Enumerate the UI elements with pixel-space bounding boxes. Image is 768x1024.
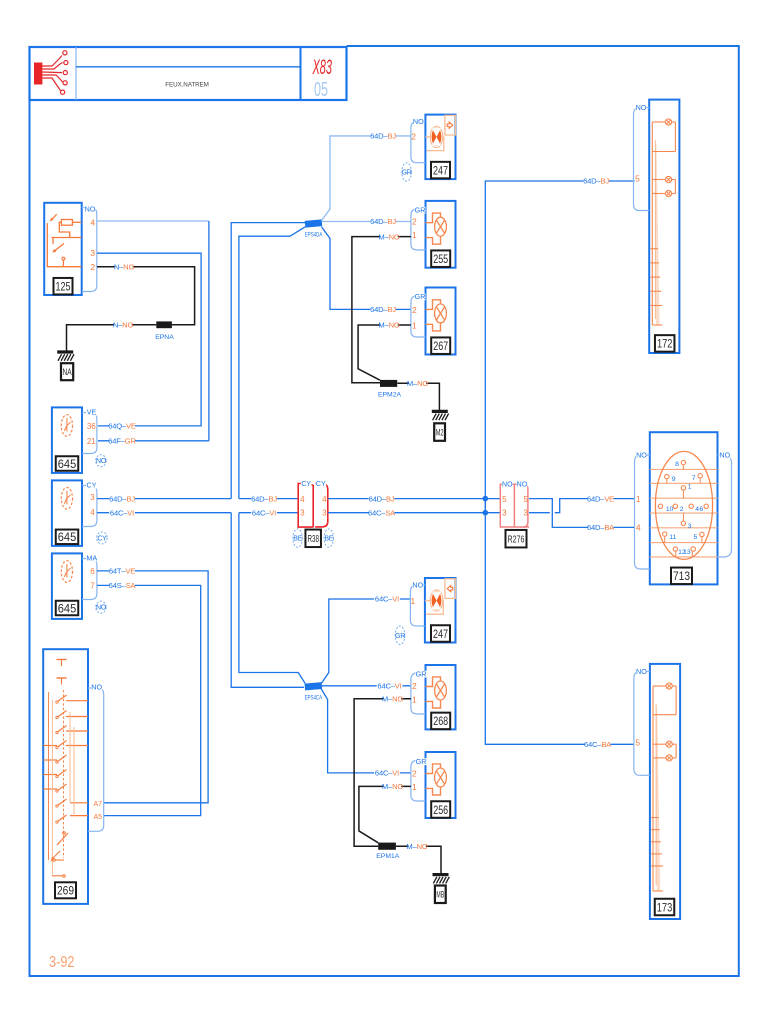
svg-text:64D–BJ: 64D–BJ bbox=[109, 494, 135, 503]
code circle NO bbox=[96, 455, 107, 467]
svg-text:EPNA: EPNA bbox=[155, 334, 174, 341]
svg-text:5: 5 bbox=[635, 174, 640, 184]
svg-text:64C–VI: 64C–VI bbox=[375, 769, 399, 778]
svg-text:64D–BJ: 64D–BJ bbox=[370, 305, 396, 314]
svg-text:GR: GR bbox=[416, 757, 427, 766]
code circle BE right bbox=[324, 529, 334, 547]
svg-text:64D–BJ: 64D–BJ bbox=[251, 494, 277, 503]
label 645 (middle) bbox=[56, 530, 79, 545]
wire splice to 256 pin2 (64C-VI) bbox=[321, 689, 411, 773]
wire label 64D-VE bbox=[587, 494, 614, 503]
wire 125 pin4 to 645a pin21 (64F-GR) bbox=[97, 221, 209, 441]
wire label M-NO bbox=[382, 695, 403, 704]
ground label NA bbox=[61, 363, 73, 380]
front lamp 268 bbox=[426, 665, 456, 729]
svg-text:3: 3 bbox=[502, 509, 507, 518]
svg-text:9: 9 bbox=[672, 476, 676, 483]
wire splice to 247a pin2 (64D-BJ) bbox=[322, 136, 411, 221]
wire EPM1A to ground MB (M-NO) bbox=[396, 846, 441, 874]
svg-text:R38: R38 bbox=[307, 534, 319, 545]
svg-text:X83: X83 bbox=[312, 56, 332, 79]
svg-text:GR: GR bbox=[402, 170, 412, 177]
connector bracket GR of 255 bbox=[411, 205, 426, 250]
svg-text:NO: NO bbox=[413, 117, 424, 126]
wire label 64S-SA bbox=[109, 581, 137, 590]
svg-text:CY: CY bbox=[87, 480, 97, 489]
svg-text:4: 4 bbox=[636, 522, 641, 532]
svg-text:3: 3 bbox=[90, 248, 95, 258]
connector bracket NO of 173 bbox=[634, 667, 650, 775]
svg-text:2: 2 bbox=[680, 506, 684, 513]
wire EPNA to ground NA (N-NO) bbox=[67, 325, 157, 352]
connector bracket NO of 172 bbox=[634, 103, 650, 210]
svg-text:M–NO: M–NO bbox=[382, 695, 403, 704]
label 172 bbox=[655, 335, 675, 352]
front lamp 255 bbox=[426, 201, 456, 268]
svg-text:13: 13 bbox=[683, 549, 691, 556]
code circle NO bbox=[96, 601, 107, 613]
svg-text:NA: NA bbox=[63, 367, 73, 378]
wire label 64C-VI bbox=[374, 595, 400, 604]
svg-text:247: 247 bbox=[433, 627, 448, 641]
svg-text:MB: MB bbox=[436, 890, 444, 901]
instrument cluster 713 bbox=[650, 432, 718, 584]
wire label N-NO bbox=[113, 321, 134, 330]
ground symbol M2 bbox=[432, 411, 449, 420]
svg-text:1: 1 bbox=[412, 320, 417, 330]
wire EPM2A to ground M2 (M-NO) bbox=[397, 383, 439, 411]
svg-text:125: 125 bbox=[56, 280, 71, 294]
svg-text:173: 173 bbox=[657, 900, 673, 914]
svg-text:64D–BJ: 64D–BJ bbox=[370, 217, 396, 226]
svg-text:CY: CY bbox=[316, 481, 326, 488]
svg-text:NO: NO bbox=[96, 458, 107, 465]
label 645 (bottom) bbox=[56, 601, 79, 616]
svg-text:M–NO: M–NO bbox=[378, 321, 399, 330]
wire 64T-VE from 645 pin6 to 269 pin A7 bbox=[97, 571, 208, 803]
svg-text:NO: NO bbox=[85, 205, 96, 214]
svg-text:247: 247 bbox=[433, 163, 448, 177]
wire splice to 247b pin1 (64C-VI) bbox=[321, 599, 410, 684]
svg-text:64D–BJ: 64D–BJ bbox=[369, 494, 395, 503]
label R38 bbox=[305, 530, 321, 548]
code circle GR bbox=[395, 626, 405, 644]
svg-text:05: 05 bbox=[314, 79, 328, 101]
svg-text:7: 7 bbox=[90, 582, 95, 591]
pin 11 of 713 bbox=[663, 532, 677, 541]
svg-text:1: 1 bbox=[412, 782, 417, 792]
junction node 64D bbox=[483, 496, 489, 502]
wire label 64D-BJ bbox=[370, 132, 396, 141]
svg-text:645: 645 bbox=[58, 457, 77, 471]
label R276 bbox=[506, 530, 527, 548]
splice EPM2A bbox=[378, 380, 402, 399]
svg-text:3: 3 bbox=[523, 509, 528, 518]
svg-text:NO: NO bbox=[636, 667, 647, 676]
svg-text:645: 645 bbox=[58, 601, 77, 615]
svg-text:7: 7 bbox=[692, 475, 696, 482]
label 268 bbox=[431, 713, 450, 730]
svg-text:FEUX.NATREM: FEUX.NATREM bbox=[165, 82, 209, 89]
svg-text:64C–BA: 64C–BA bbox=[584, 740, 612, 749]
pin 3 of 713 bbox=[681, 521, 692, 530]
connector code NO left bbox=[502, 481, 513, 488]
wire label 64D-BJ bbox=[583, 177, 609, 186]
svg-text:GR: GR bbox=[415, 205, 426, 214]
svg-text:6: 6 bbox=[90, 567, 95, 576]
svg-text:A5: A5 bbox=[94, 814, 103, 821]
svg-text:1: 1 bbox=[688, 483, 692, 490]
pin 8 of 713 bbox=[675, 460, 685, 468]
front lamp 267 bbox=[426, 288, 456, 355]
connector bracket NO of 269 bbox=[88, 682, 104, 831]
wire splice to 267 pin2 (64D-BJ) bbox=[322, 227, 411, 310]
label 247 (top) bbox=[431, 162, 450, 179]
svg-text:3-92: 3-92 bbox=[49, 954, 75, 971]
wire label 64C-VI bbox=[374, 769, 400, 778]
svg-text:269: 269 bbox=[57, 884, 74, 898]
wire V2 64D return from splice EPS4DA bbox=[239, 227, 305, 499]
svg-text:NO: NO bbox=[636, 451, 647, 460]
svg-text:5: 5 bbox=[502, 495, 507, 504]
pin 6 of 713 bbox=[699, 504, 708, 513]
splice EPS4CA bbox=[305, 682, 323, 701]
svg-text:M–NO: M–NO bbox=[407, 379, 428, 388]
label 645 (top) bbox=[56, 456, 79, 471]
connector bracket NO of 247 top bbox=[411, 117, 426, 163]
svg-text:CY: CY bbox=[97, 535, 107, 542]
svg-text:172: 172 bbox=[657, 337, 673, 351]
wire label 64D-BJ bbox=[370, 217, 396, 226]
wire V3 64C to splice EPS4CA bbox=[231, 513, 304, 688]
indicator lamp 247 (bottom) bbox=[425, 578, 456, 643]
wire label 64Q-VE bbox=[108, 422, 136, 431]
svg-text:R276: R276 bbox=[508, 534, 525, 545]
header title block bbox=[30, 47, 347, 100]
connector code NO right bbox=[517, 481, 528, 488]
svg-text:64C–VI: 64C–VI bbox=[377, 682, 401, 691]
connector bracket GR of 256 bbox=[411, 757, 427, 801]
svg-text:EPS4CA: EPS4CA bbox=[305, 694, 323, 701]
svg-text:64T–VE: 64T–VE bbox=[109, 567, 135, 576]
wire V4 64C return from splice EPS4CA bbox=[239, 513, 305, 684]
svg-text:6: 6 bbox=[699, 506, 703, 513]
label 125 bbox=[54, 278, 73, 295]
connector R276 bbox=[500, 484, 529, 527]
svg-text:5: 5 bbox=[694, 534, 698, 541]
svg-text:21: 21 bbox=[87, 437, 96, 446]
svg-text:GR: GR bbox=[415, 292, 426, 301]
connector R38 bbox=[298, 484, 328, 528]
wire label N-NO bbox=[114, 262, 135, 271]
connector code CY right bbox=[315, 480, 326, 487]
wire label 64C-VI bbox=[251, 508, 277, 517]
svg-text:4: 4 bbox=[90, 508, 95, 517]
ground label M2 bbox=[434, 423, 445, 441]
svg-text:4: 4 bbox=[322, 495, 327, 504]
svg-text:M–NO: M–NO bbox=[382, 782, 403, 791]
svg-text:64C–VI: 64C–VI bbox=[252, 508, 276, 517]
unit 645 (bottom) bbox=[52, 553, 82, 619]
svg-text:A7: A7 bbox=[94, 801, 103, 808]
wire V1 64D to splice EPS4DA bbox=[231, 223, 305, 499]
label 247 (bottom) bbox=[431, 625, 450, 642]
ground symbol MB bbox=[433, 875, 450, 884]
svg-text:3: 3 bbox=[688, 523, 692, 530]
pin 2 of 713 bbox=[673, 504, 684, 513]
svg-text:M–NO: M–NO bbox=[378, 232, 399, 241]
wire label M-NO bbox=[378, 232, 399, 241]
header logo (red connector) bbox=[34, 51, 68, 95]
connector bracket MA of 645 bottom bbox=[82, 553, 97, 599]
junction node 64C bbox=[483, 510, 489, 516]
front lamp 256 bbox=[426, 752, 456, 818]
svg-text:10: 10 bbox=[666, 506, 674, 513]
svg-text:645: 645 bbox=[58, 530, 77, 544]
svg-text:1: 1 bbox=[412, 230, 417, 240]
svg-text:CY: CY bbox=[301, 481, 311, 488]
svg-text:2: 2 bbox=[412, 681, 417, 691]
svg-text:5: 5 bbox=[523, 495, 528, 504]
wire label 64T-VE bbox=[109, 567, 135, 576]
wire 64C-VI from V4 to R38 bbox=[239, 512, 298, 514]
pin 9 of 713 bbox=[665, 474, 676, 483]
svg-text:N–NO: N–NO bbox=[114, 262, 135, 271]
svg-text:MA: MA bbox=[86, 553, 97, 562]
svg-text:NO: NO bbox=[412, 581, 423, 590]
svg-text:2: 2 bbox=[412, 305, 417, 315]
wire label 64C-SA bbox=[368, 508, 396, 517]
svg-text:64D–BJ: 64D–BJ bbox=[583, 177, 609, 186]
connector bracket NO right of 713 bbox=[718, 451, 732, 557]
label 713 bbox=[671, 568, 692, 585]
svg-text:M2: M2 bbox=[436, 427, 444, 438]
pin 12 of 713 bbox=[673, 547, 686, 556]
wire label M-NO bbox=[378, 321, 399, 330]
splice EPS4DA bbox=[305, 219, 323, 238]
wire junction to 172 pin5 (64D-BJ) bbox=[485, 181, 634, 513]
label 173 bbox=[655, 899, 675, 916]
svg-text:NO: NO bbox=[96, 605, 107, 612]
wire label M-NO bbox=[407, 379, 428, 388]
svg-text:2: 2 bbox=[412, 217, 417, 227]
svg-text:64C–VI: 64C–VI bbox=[375, 595, 399, 604]
wire label 64F-GR bbox=[108, 437, 136, 446]
svg-text:1: 1 bbox=[411, 596, 416, 606]
svg-text:1: 1 bbox=[412, 695, 417, 705]
svg-text:256: 256 bbox=[433, 803, 448, 817]
svg-text:GR: GR bbox=[416, 669, 427, 678]
connector bracket GR of 267 bbox=[411, 292, 426, 337]
svg-text:NO: NO bbox=[502, 481, 513, 488]
wire 64C-VI from 645 pin4 to V3 bbox=[97, 512, 231, 514]
label 256 bbox=[431, 801, 450, 818]
svg-text:EPS4DA: EPS4DA bbox=[305, 232, 323, 239]
wire 268 pin1 to EPM1A (M-NO) bbox=[354, 699, 411, 846]
svg-text:NO: NO bbox=[91, 682, 102, 691]
svg-text:255: 255 bbox=[433, 252, 448, 266]
headlamp 172 bbox=[649, 100, 679, 353]
wire junction to 173 pin5 (64C-BA) bbox=[485, 499, 634, 745]
wire 125 pin2 to splice EPNA (N-NO) bbox=[97, 267, 195, 325]
wire label 64C-VI bbox=[109, 508, 135, 517]
splice EPM1A bbox=[376, 843, 400, 860]
svg-text:64C–VI: 64C–VI bbox=[110, 508, 134, 517]
svg-text:64F–GR: 64F–GR bbox=[108, 437, 136, 446]
label 267 bbox=[431, 337, 450, 354]
pin 7 of 713 bbox=[692, 474, 703, 483]
wire label M-NO bbox=[406, 842, 427, 851]
svg-text:BE: BE bbox=[293, 536, 302, 543]
svg-text:64C–SA: 64C–SA bbox=[368, 508, 396, 517]
wire R276 pin5 to 713 pin4 (64D-BA, crossover) bbox=[529, 499, 635, 528]
svg-text:3: 3 bbox=[90, 493, 95, 502]
pin 1 of 713 bbox=[681, 483, 692, 490]
unit 645 (middle) bbox=[52, 480, 82, 546]
indicator lamp 247 (top) bbox=[425, 115, 455, 180]
connector bracket CY of 645 middle bbox=[82, 480, 97, 526]
lighting switch 269 bbox=[43, 649, 88, 904]
wire 64D-BJ from V2 to R38 bbox=[239, 498, 298, 500]
wire 64S-SA from 645 pin7 to 269 pin A5 bbox=[97, 585, 201, 815]
pin 10 of 713 bbox=[658, 504, 673, 513]
unit 645 (top) bbox=[52, 407, 82, 473]
svg-text:268: 268 bbox=[433, 714, 448, 728]
svg-text:1: 1 bbox=[636, 494, 641, 504]
svg-text:5: 5 bbox=[635, 738, 640, 748]
wire splice to 255 pin2 (64D-BJ) bbox=[322, 221, 411, 223]
wire 64D-BJ from 645 pin3 to V1 bbox=[97, 498, 231, 500]
svg-text:N–NO: N–NO bbox=[113, 321, 134, 330]
wire 255 pin1 to EPM2A (M-NO) bbox=[352, 237, 411, 383]
pin 13 of 713 bbox=[683, 547, 695, 556]
wire R38 to R276 (64D-BJ) bbox=[328, 498, 501, 500]
svg-text:EPM2A: EPM2A bbox=[378, 392, 402, 399]
svg-text:GR: GR bbox=[395, 633, 405, 640]
svg-text:NO: NO bbox=[719, 451, 730, 460]
wire 256 pin1 to EPM1A (M-NO) bbox=[359, 786, 411, 842]
svg-text:3: 3 bbox=[300, 509, 305, 518]
svg-text:4: 4 bbox=[90, 217, 95, 227]
code circle BE left bbox=[293, 529, 303, 547]
svg-text:BE: BE bbox=[324, 536, 333, 543]
wire label 64D-BJ bbox=[109, 494, 135, 503]
svg-text:64Q–VE: 64Q–VE bbox=[108, 422, 136, 431]
wire label M-NO bbox=[382, 782, 403, 791]
svg-text:64D–BA: 64D–BA bbox=[587, 523, 615, 532]
code circle GR bbox=[402, 163, 412, 181]
svg-text:267: 267 bbox=[433, 339, 448, 353]
wire splice to 268 pin2 (64C-VI) bbox=[321, 685, 411, 687]
svg-text:NO: NO bbox=[636, 103, 647, 112]
svg-text:2: 2 bbox=[411, 132, 416, 142]
svg-text:2: 2 bbox=[412, 769, 417, 779]
pin 5 of 713 bbox=[694, 532, 705, 541]
svg-text:11: 11 bbox=[669, 534, 676, 541]
wire 267 pin1 to EPM2A (M-NO) bbox=[358, 325, 411, 380]
svg-text:36: 36 bbox=[87, 422, 96, 431]
ground symbol NA bbox=[57, 352, 74, 361]
svg-text:3: 3 bbox=[322, 509, 327, 518]
svg-text:NO: NO bbox=[517, 481, 528, 488]
wire 125 pin3 to 645a pin36 (64Q-VE) bbox=[97, 253, 201, 426]
svg-text:8: 8 bbox=[675, 461, 679, 468]
wire R38 to R276 (64C-SA) bbox=[328, 512, 501, 514]
svg-text:64S–SA: 64S–SA bbox=[109, 581, 137, 590]
wire label 64C-BA bbox=[584, 740, 612, 749]
svg-text:EPM1A: EPM1A bbox=[376, 853, 400, 860]
code circle CY bbox=[97, 532, 107, 544]
svg-text:4: 4 bbox=[300, 495, 305, 504]
connector bracket NO of 125 bbox=[82, 205, 97, 292]
connector bracket NO left of 713 bbox=[635, 451, 650, 569]
connector bracket GR of 268 bbox=[411, 669, 427, 714]
wire label 64D-BA bbox=[587, 523, 615, 532]
svg-text:64D–VE: 64D–VE bbox=[587, 494, 614, 503]
svg-text:M–NO: M–NO bbox=[406, 842, 427, 851]
svg-text:VE: VE bbox=[87, 407, 97, 416]
connector bracket VE of 645 top bbox=[82, 407, 97, 453]
ground label MB bbox=[435, 886, 446, 904]
wire label 64D-BJ bbox=[251, 494, 277, 503]
headlamp 173 bbox=[650, 664, 680, 919]
splice EPNA bbox=[155, 321, 174, 341]
relay 125 bbox=[44, 203, 81, 295]
connector bracket NO of 247 bottom bbox=[410, 581, 425, 626]
svg-text:2: 2 bbox=[90, 262, 95, 272]
wire label 64D-BJ bbox=[370, 305, 396, 314]
svg-text:713: 713 bbox=[673, 569, 690, 583]
label 255 bbox=[431, 250, 450, 267]
713 internal connections bbox=[665, 465, 702, 557]
svg-text:64D–BJ: 64D–BJ bbox=[370, 132, 396, 141]
connector code CY left bbox=[301, 480, 312, 487]
wire label 64C-VI bbox=[377, 682, 403, 691]
label 269 bbox=[55, 882, 76, 898]
wire R276 pin3 to 713 pin1 (64D-VE, crossover) bbox=[529, 499, 635, 513]
wire label 64D-BJ bbox=[369, 494, 395, 503]
pin 4 of 713 bbox=[689, 504, 699, 513]
